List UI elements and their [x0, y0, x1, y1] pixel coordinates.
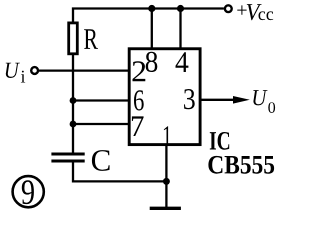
junction: node to pin 6	[70, 97, 77, 104]
ground	[150, 207, 181, 210]
label +Vcc V	[247, 4, 262, 20]
wire: pin 4 to top rail	[179, 9, 181, 51]
pin 7 label	[132, 116, 144, 136]
label C	[92, 150, 110, 171]
junction: node to pin 7	[70, 121, 77, 128]
pin 3 label	[184, 89, 195, 109]
wire: capacitor bottom to ground node	[73, 163, 166, 182]
junction: pin-8 wire on top rail	[148, 5, 155, 12]
resistor R	[69, 23, 78, 54]
label +Vcc subscript cc	[259, 11, 274, 20]
pin 1 label	[164, 126, 171, 146]
label U0 subscript 0	[268, 102, 275, 113]
label CB555	[208, 156, 274, 174]
op-amp/IC U1 CB555 outline	[129, 49, 200, 145]
label Ui	[6, 63, 20, 78]
figure number 9	[13, 176, 44, 207]
pin 2 label	[133, 61, 146, 81]
wire: pin 8 to top rail	[151, 9, 153, 51]
label R	[84, 29, 98, 49]
terminal: +Vcc supply	[225, 5, 232, 12]
wire: IC pin 1 down to ground	[165, 145, 167, 207]
junction: ground node under pin 1	[163, 178, 170, 185]
arrow: output direction	[233, 96, 250, 104]
label Ui subscript i	[21, 71, 25, 83]
label +Vcc	[237, 5, 246, 14]
pin 4 label	[176, 52, 189, 72]
label U0	[253, 90, 267, 105]
wire: node column from resistor bottom to capacitor C top	[72, 55, 74, 153]
wire: node column to IC pin 6	[73, 99, 130, 101]
pin 8 label	[146, 52, 158, 72]
capacitor C	[51, 154, 84, 161]
pin 6 label	[134, 90, 144, 110]
label IC	[210, 132, 229, 150]
wire: node column to IC pin 7	[73, 123, 130, 125]
wire: IC pin 3 output	[200, 99, 235, 101]
wire: Ui input to IC pin 2	[38, 69, 130, 71]
wire: +Vcc top rail with stub down to resistor R top	[73, 9, 224, 23]
terminal: Ui input	[31, 67, 38, 74]
junction: pin-4 wire on top rail	[177, 5, 184, 12]
